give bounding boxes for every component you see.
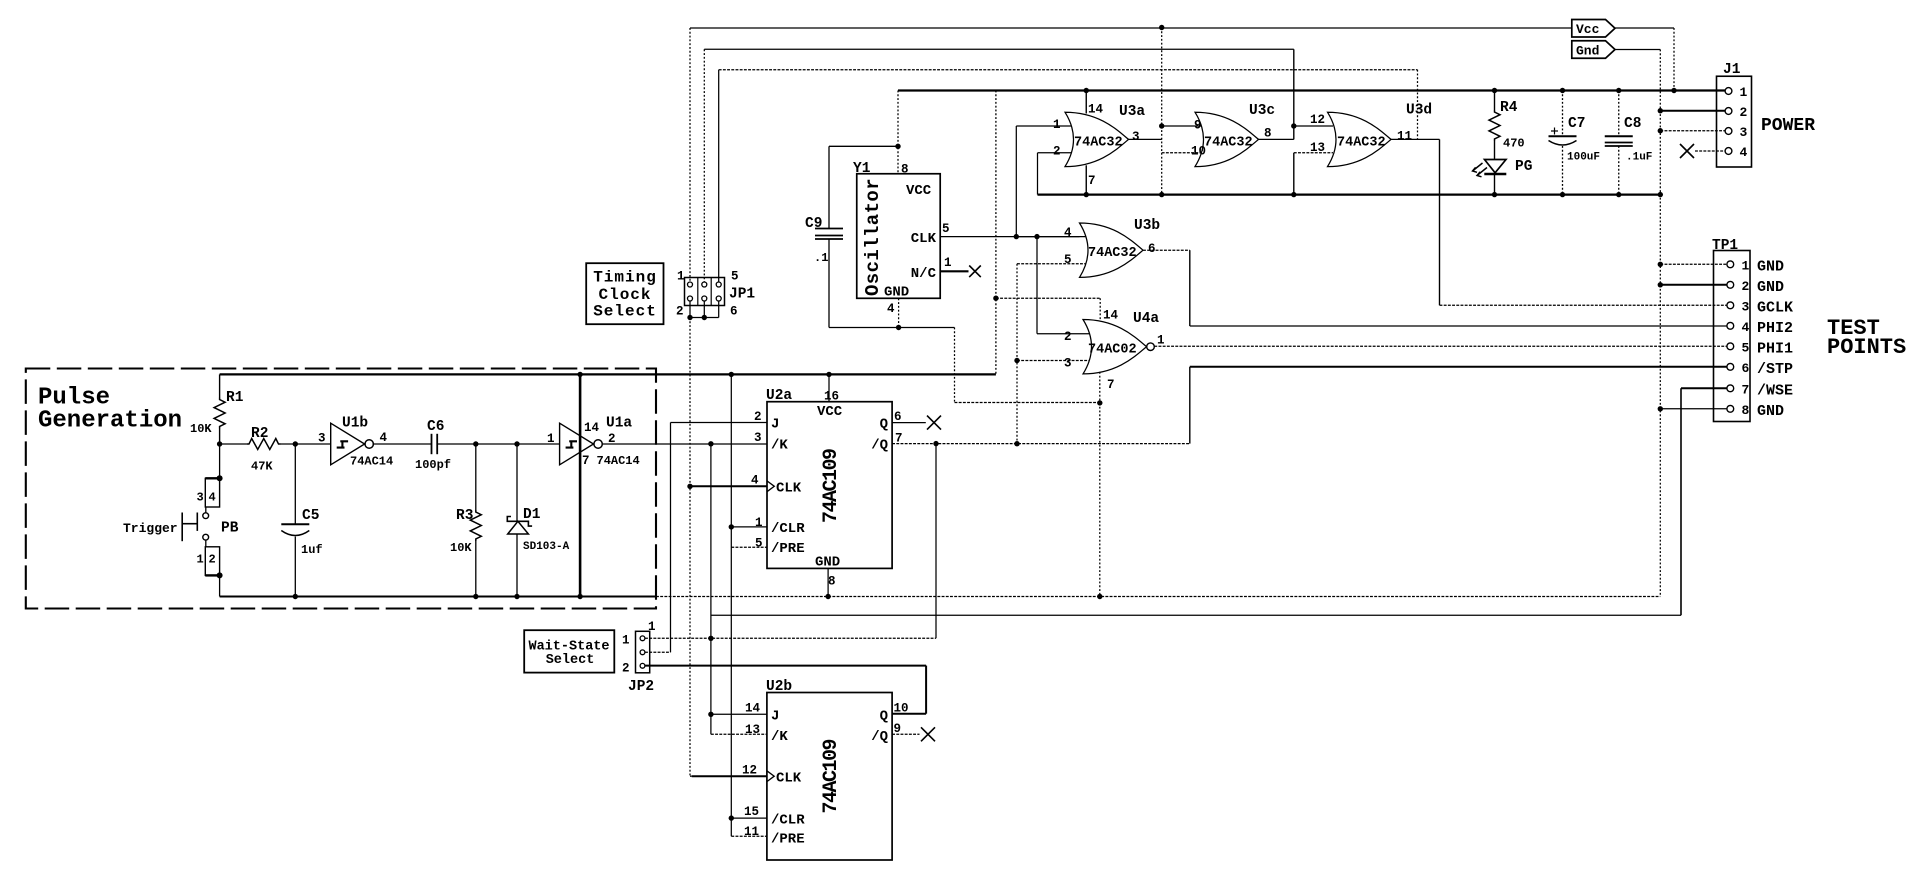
svg-text:PHI1: PHI1 <box>1757 340 1793 357</box>
wire U4a pin2 up <box>1036 237 1038 334</box>
svg-text:VCC: VCC <box>906 183 932 199</box>
wire U3a pin7 stub <box>1085 165 1087 194</box>
pin U2b /PRE tie <box>731 835 767 837</box>
svg-text:C5: C5 <box>302 508 319 524</box>
resistor R4 <box>1494 91 1496 111</box>
svg-text:74AC109: 74AC109 <box>820 739 843 813</box>
wire U3a pin14 stub <box>1085 91 1087 114</box>
wire U2a clk lead <box>690 485 767 487</box>
node Gnd J1 pin2 <box>1658 108 1663 113</box>
svg-text:Y1: Y1 <box>853 161 871 177</box>
svg-text:1: 1 <box>944 256 952 270</box>
wire U1a net down <box>710 444 712 715</box>
wire Vcc flag to J1 <box>1615 27 1674 29</box>
svg-text:GND: GND <box>1757 258 1784 275</box>
svg-text:5: 5 <box>755 537 763 551</box>
connector TP1 test points <box>1714 251 1751 422</box>
flip-flop U2a 74AC109 <box>767 402 892 569</box>
wire JP1 pin6 down <box>718 301 720 318</box>
wire JP2 mid row <box>645 651 671 653</box>
svg-text:3: 3 <box>754 431 762 445</box>
node TP1 pin2 junction <box>1658 282 1663 287</box>
svg-text:J: J <box>771 709 779 725</box>
svg-text:SD103-A: SD103-A <box>523 541 570 553</box>
resistor R3 <box>475 444 477 510</box>
power flag Gnd <box>1572 41 1615 59</box>
node U2a /CLR junction <box>729 524 734 529</box>
svg-text:74AC14: 74AC14 <box>350 455 393 469</box>
svg-text:J1: J1 <box>1723 62 1741 78</box>
node vcc branch junction <box>993 296 998 301</box>
svg-text:JP2: JP2 <box>628 679 654 695</box>
node TP1 pin1 junction <box>1658 262 1663 267</box>
svg-text:4: 4 <box>887 302 895 316</box>
pulse generation section dashed boundary <box>26 369 656 609</box>
svg-text:U1a: U1a <box>606 416 632 432</box>
wire U2b /CLR lead <box>731 817 767 819</box>
pin TP1.1 GND <box>1727 261 1734 268</box>
wire J1 pin3 lead <box>1660 130 1725 132</box>
wire U4a pin7 gnd down <box>1099 403 1101 597</box>
svg-text:U2a: U2a <box>766 388 792 404</box>
wire JP1 pin5 net horizontal <box>719 69 1418 71</box>
svg-text:7: 7 <box>1742 382 1750 397</box>
wire JP1 pin5 up <box>718 70 720 282</box>
svg-text:Select: Select <box>593 303 657 321</box>
wire U3b pin5 lead <box>1017 263 1086 265</box>
capacitor C9 <box>828 146 830 228</box>
node JP1 bottom tie b <box>702 315 707 320</box>
wire Y1 CLK line <box>940 236 1079 238</box>
node U1a pin7 gnd junction <box>577 594 582 599</box>
svg-text:5: 5 <box>1064 253 1072 267</box>
pin U2a J input wire <box>671 422 768 424</box>
svg-text:6: 6 <box>730 305 738 319</box>
svg-text:2: 2 <box>1742 279 1750 294</box>
svg-text:1: 1 <box>1157 334 1165 348</box>
svg-text:4: 4 <box>1740 145 1748 160</box>
svg-text:U3b: U3b <box>1134 218 1160 234</box>
wire Vcc drop to pulse rail <box>995 91 997 375</box>
wire U2b Q lead <box>892 713 926 715</box>
svg-text:74AC32: 74AC32 <box>1337 136 1386 151</box>
svg-text:C8: C8 <box>1624 116 1641 132</box>
svg-text:2: 2 <box>1053 145 1061 159</box>
svg-text:/Q: /Q <box>871 438 888 454</box>
wire PHI2 down <box>1189 250 1191 326</box>
node U4a pin7 gnd rail <box>1097 594 1102 599</box>
wire GND rail right thin portion <box>656 596 1660 598</box>
wire J1 pin2 lead <box>1660 110 1725 112</box>
svg-text:Trigger: Trigger <box>123 521 178 536</box>
node CLK U4a.2 junction <box>1034 234 1039 239</box>
capacitor C8 .1uF <box>1618 91 1620 137</box>
svg-text:PB: PB <box>221 521 239 537</box>
no-connect J1 pin4 <box>1680 144 1694 158</box>
node U2b /CLR junction <box>729 815 734 820</box>
wire U3a pin1 down to CLK <box>1015 126 1017 237</box>
pin TP1.8 GND <box>1727 405 1734 412</box>
wire TP1 pin8 gnd lead <box>1660 408 1727 410</box>
svg-text:J: J <box>771 417 779 433</box>
node C8 vcc <box>1616 88 1621 93</box>
wire JP1 pin5 net down <box>1417 70 1419 140</box>
wire U4a pin14 stub <box>1099 298 1101 321</box>
wire C6 to U1a input <box>437 443 559 445</box>
svg-text:.1uF: .1uF <box>1626 152 1652 164</box>
svg-text:1: 1 <box>1740 85 1748 100</box>
wire R1 to R2 <box>220 443 247 445</box>
svg-text:4: 4 <box>1064 226 1072 240</box>
or-gate U3b 74AC32 <box>1080 223 1144 277</box>
node JP2 pin1 junction <box>708 636 713 641</box>
pin U2a Q no-connect <box>892 422 926 424</box>
wire GND rail pulse-gen bottom <box>220 596 656 598</box>
connector JP1 timing clock select jumper <box>685 278 725 306</box>
svg-text:D1: D1 <box>523 507 541 523</box>
node Gnd rail junction <box>1658 192 1663 197</box>
wire Vcc power rail <box>898 89 1725 91</box>
svg-text:/WSE: /WSE <box>1757 382 1793 399</box>
wire PHI1 row U4a output <box>1154 345 1727 347</box>
svg-text:Oscillator: Oscillator <box>862 178 884 296</box>
node U2a.8 gnd <box>825 594 830 599</box>
wire C9 top to Y1 vcc <box>829 145 898 147</box>
connector J1 POWER <box>1717 76 1752 167</box>
wire JP2 pin2 down <box>925 666 927 714</box>
svg-text:74AC14: 74AC14 <box>597 454 640 468</box>
svg-text:U3d: U3d <box>1406 103 1432 119</box>
svg-text:GND: GND <box>1757 279 1784 296</box>
node C5 gnd junction <box>293 594 298 599</box>
svg-text:3: 3 <box>197 491 204 505</box>
svg-text:PHI2: PHI2 <box>1757 320 1793 337</box>
wire Y1 pin8 stub <box>897 91 899 174</box>
svg-text:C7: C7 <box>1568 116 1585 132</box>
wire TP1 pin2 gnd lead <box>1660 284 1727 286</box>
svg-text:U3a: U3a <box>1119 104 1145 120</box>
pin TP1.6 /STP <box>1727 363 1734 370</box>
svg-text:/K: /K <box>771 438 788 454</box>
svg-text:1: 1 <box>547 432 555 446</box>
node R3 junction <box>473 441 478 446</box>
node U3c pin9 junction <box>1159 123 1164 128</box>
or-gate U3d 74AC32 <box>1328 112 1392 166</box>
capacitor C6 <box>431 434 433 454</box>
svg-text:Generation: Generation <box>38 408 182 435</box>
node U3d.12 junction <box>1291 123 1296 128</box>
svg-text:7: 7 <box>1107 378 1115 392</box>
wire U4a pin3 lead <box>1017 360 1090 362</box>
svg-text:8: 8 <box>1264 127 1272 141</box>
svg-text:Q: Q <box>880 709 888 725</box>
svg-text:10: 10 <box>894 702 909 716</box>
svg-text:6: 6 <box>1148 242 1156 256</box>
pin TP1.3 GCLK <box>1727 302 1734 309</box>
svg-text:14: 14 <box>1088 103 1104 117</box>
svg-text:1: 1 <box>622 634 630 648</box>
svg-text:3: 3 <box>1064 357 1072 371</box>
svg-text:CLK: CLK <box>911 231 937 247</box>
node PG gnd <box>1492 192 1497 197</box>
oscillator Y1 <box>857 174 940 299</box>
wire GND power rail <box>1038 194 1661 196</box>
svg-text:1: 1 <box>1742 258 1750 273</box>
svg-text:5: 5 <box>1742 340 1750 355</box>
wire U3a pin2 lead <box>1038 152 1072 154</box>
wire U3d pin13 down <box>1293 153 1295 195</box>
wire JP2 pin2 row <box>645 665 926 667</box>
svg-text:TP1: TP1 <box>1712 238 1738 254</box>
wire U1b output to C6 <box>373 443 432 445</box>
wire U1a pin 14-7 stub <box>579 374 582 596</box>
wire U3a pin1 lead <box>1016 125 1071 127</box>
svg-text:12: 12 <box>1310 113 1325 127</box>
svg-text:2: 2 <box>1064 330 1072 344</box>
node Gnd J1 pin3 <box>1658 128 1663 133</box>
wire U3a output <box>1129 138 1162 140</box>
wire U1a output to U2a /K <box>603 443 767 445</box>
wire U2b clk corner <box>690 775 692 777</box>
svg-text:Vcc: Vcc <box>1576 22 1600 37</box>
svg-text:Gnd: Gnd <box>1576 44 1599 59</box>
wire U3b pin5 net down <box>1016 264 1018 444</box>
svg-text:2: 2 <box>209 553 216 567</box>
svg-text:2: 2 <box>1740 105 1748 120</box>
svg-text:N/C: N/C <box>911 266 937 282</box>
pin TP1.7 /WSE <box>1727 385 1734 392</box>
wire Y1 pin4 stub <box>898 298 900 327</box>
svg-text:2: 2 <box>622 662 630 676</box>
wire U3a pin2 down <box>1037 153 1039 195</box>
wire GCLK row <box>1440 304 1727 306</box>
svg-text:4: 4 <box>380 431 388 445</box>
svg-text:470: 470 <box>1503 137 1525 151</box>
svg-text:/K: /K <box>771 729 788 745</box>
pin TP1.2 GND <box>1727 281 1734 288</box>
wire /Q feedback down <box>935 444 937 639</box>
wire GCLK feed vertical <box>1161 28 1163 195</box>
wire JP1 to U2 clocks <box>689 318 691 777</box>
node CLK U3a.1 junction <box>1014 234 1019 239</box>
svg-text:U1b: U1b <box>342 416 368 432</box>
svg-text:/STP: /STP <box>1757 361 1793 378</box>
svg-text:R4: R4 <box>1500 100 1518 116</box>
svg-text:CLK: CLK <box>776 771 802 787</box>
svg-text:10K: 10K <box>450 541 472 555</box>
svg-text:74AC109: 74AC109 <box>820 449 843 523</box>
wire Vcc rail pulse-gen top <box>220 373 996 375</box>
svg-text:/PRE: /PRE <box>771 831 805 847</box>
node U1a pin14 rail junction <box>577 372 582 377</box>
pin U2b /K tie <box>710 714 712 734</box>
node U2a clk junction <box>687 484 692 489</box>
node U2a /K junction <box>708 441 713 446</box>
annotation box Timing Clock Select <box>586 263 663 324</box>
wire U4a pin2 lead <box>1037 333 1090 335</box>
wire U2a /PRE lead <box>731 546 767 548</box>
node U4a.3 junction <box>1014 358 1019 363</box>
svg-text:74AC02: 74AC02 <box>1088 343 1137 358</box>
wire U3b pin4 lead is CLK line <box>1016 236 1085 238</box>
wire U2a pin16 stub <box>828 374 830 401</box>
led PG <box>1485 160 1507 173</box>
or-gate U3a 74AC32 <box>1065 112 1129 166</box>
svg-text:4: 4 <box>209 491 216 505</box>
annotation box Wait-State Select <box>524 630 614 672</box>
svg-text:8: 8 <box>901 163 909 177</box>
svg-text:/Q: /Q <box>871 729 888 745</box>
svg-text:Clock: Clock <box>598 286 651 304</box>
wire U3d pin13 lead <box>1294 152 1333 154</box>
node D1 junction <box>514 441 519 446</box>
svg-text:11: 11 <box>744 825 759 839</box>
svg-text:VCC: VCC <box>817 404 843 420</box>
wire Y1 gnd to U4a pin7 <box>955 402 1100 404</box>
node U2a.16 vcc <box>826 372 831 377</box>
wire U3d pin12 lead <box>1294 125 1333 127</box>
svg-text:3: 3 <box>1740 125 1748 140</box>
node GCLK top junction <box>1159 25 1164 30</box>
svg-text:U4a: U4a <box>1133 311 1159 327</box>
wire U4a vcc branch <box>996 297 1100 299</box>
svg-text:PG: PG <box>1515 159 1532 175</box>
node /Q feedback junction <box>933 441 938 446</box>
svg-text:1: 1 <box>677 270 685 284</box>
svg-text:14: 14 <box>584 421 600 435</box>
svg-text:74AC32: 74AC32 <box>1074 136 1123 151</box>
node Y1 vcc junction <box>895 144 900 149</box>
svg-text:5: 5 <box>731 270 739 284</box>
wire pulse net horizontal <box>711 614 1681 616</box>
svg-text:Q: Q <box>880 417 888 433</box>
pushbutton PB actuator <box>196 513 198 531</box>
nor-gate U4a 74AC02 <box>1083 320 1147 374</box>
node U4a pin7 junction <box>1097 400 1102 405</box>
op-amp U1a inverter 74AC14 <box>560 423 594 465</box>
svg-text:GCLK: GCLK <box>1757 299 1793 316</box>
svg-text:GND: GND <box>815 555 840 571</box>
node gclk gnd rail junction <box>1159 192 1164 197</box>
pin U2b J input wire <box>711 713 767 715</box>
svg-text:74AC32: 74AC32 <box>1204 136 1253 151</box>
node U3a.14 vcc <box>1084 88 1089 93</box>
node C7 gnd <box>1560 192 1565 197</box>
svg-text:3: 3 <box>1132 130 1140 144</box>
svg-text:JP1: JP1 <box>729 287 755 303</box>
node C7 vcc <box>1560 88 1565 93</box>
wire JP1 pin3 net horizontal <box>704 48 1294 50</box>
wire Gnd net vertical <box>1659 50 1661 597</box>
diode D1 SD103-A <box>516 444 518 521</box>
svg-text:R1: R1 <box>226 390 244 406</box>
wire R2 to U1b input <box>281 443 331 445</box>
wire U3b output <box>1143 249 1190 251</box>
wire U3c pin9 lead <box>1162 125 1201 127</box>
node R4 vcc <box>1492 88 1497 93</box>
node R1 bottom junction <box>217 441 222 446</box>
svg-text:GND: GND <box>884 285 909 301</box>
svg-text:74AC32: 74AC32 <box>1088 246 1137 261</box>
svg-text:4: 4 <box>1742 320 1750 335</box>
node D1 gnd junction <box>514 594 519 599</box>
svg-text:10K: 10K <box>190 422 212 436</box>
svg-text:1: 1 <box>755 516 763 530</box>
or-gate U3c 74AC32 <box>1195 112 1259 166</box>
wire Y1 gnd down <box>954 328 956 403</box>
svg-text:14: 14 <box>745 702 761 716</box>
wire TP1 pin1 gnd lead <box>1660 263 1727 265</box>
connector JP2 wait-state select jumper <box>636 631 650 673</box>
node U3d.13 gnd <box>1291 192 1296 197</box>
svg-text:6: 6 <box>894 410 902 424</box>
svg-text:Select: Select <box>546 653 595 668</box>
svg-text:CLK: CLK <box>776 481 802 497</box>
wire Y1 gnd horizontal <box>829 327 955 329</box>
node C8 gnd <box>1616 192 1621 197</box>
capacitor C7 100uF <box>1562 91 1564 137</box>
node TP1 pin8 junction <box>1658 406 1663 411</box>
wire JP2 pin1 row <box>645 637 936 639</box>
svg-text:C6: C6 <box>427 419 444 435</box>
node JP1 bottom tie a <box>687 315 692 320</box>
wire JP1 pin3 net down <box>1293 49 1295 139</box>
pin Y1 N/C no-connect <box>940 270 968 272</box>
svg-text:6: 6 <box>1742 361 1750 376</box>
svg-text:7: 7 <box>582 454 590 468</box>
wire /STP row <box>1190 366 1727 368</box>
svg-text:15: 15 <box>744 805 759 819</box>
svg-text:100pf: 100pf <box>415 458 451 472</box>
wire JP1 pin2 down <box>689 301 691 318</box>
node /Q U3b.5 junction <box>1014 441 1019 446</box>
svg-text:5: 5 <box>942 222 950 236</box>
svg-text:7: 7 <box>1088 174 1096 188</box>
svg-text:R3: R3 <box>456 508 473 524</box>
wire GCLK down to TP1 row <box>1439 139 1441 305</box>
svg-text:47K: 47K <box>251 460 273 474</box>
node C5 junction <box>293 441 298 446</box>
wire U2b clk lead <box>692 775 767 777</box>
node R3 gnd junction <box>473 594 478 599</box>
svg-text:/PRE: /PRE <box>771 541 805 557</box>
power flag Vcc <box>1572 20 1615 38</box>
pin U2a /Q output wire <box>892 443 1190 445</box>
svg-text:/CLR: /CLR <box>771 812 805 828</box>
node Y1 gnd junction <box>896 325 901 330</box>
wire Vcc flag down <box>1673 28 1675 91</box>
op-amp U1b inverter 74AC14 <box>331 423 365 465</box>
svg-text:11: 11 <box>1397 130 1412 144</box>
node Vcc J1 junction <box>1671 88 1676 93</box>
wire U3c pin10 lead <box>1162 152 1201 154</box>
svg-text:Timing: Timing <box>593 269 657 287</box>
svg-text:POINTS: POINTS <box>1827 335 1906 360</box>
svg-text:/CLR: /CLR <box>771 521 805 537</box>
svg-text:8: 8 <box>828 575 836 589</box>
svg-text:GND: GND <box>1757 403 1784 420</box>
svg-text:16: 16 <box>824 390 839 404</box>
pin U2b /Q no-connect <box>892 733 919 735</box>
wire U2a /CLR lead <box>731 526 767 528</box>
wire U3c output <box>1259 138 1294 140</box>
wire PHI2 row <box>1190 325 1727 327</box>
node U3a.7 gnd <box>1084 192 1089 197</box>
pushbutton PB trigger switch <box>219 444 221 478</box>
node U2a clr-pre rail junction <box>729 372 734 377</box>
svg-text:.1: .1 <box>814 251 828 265</box>
wire U4a pin7 stub <box>1099 372 1101 403</box>
